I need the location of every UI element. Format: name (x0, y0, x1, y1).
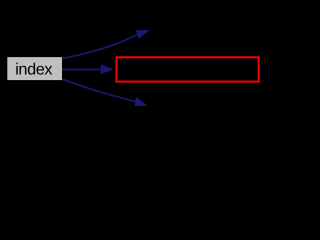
svg-text:index: index (15, 61, 52, 79)
